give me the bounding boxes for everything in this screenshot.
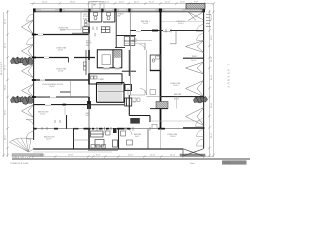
door arcs R6/R7 below dark wall <box>197 130 204 137</box>
svg-text:16'-0": 16'-0" <box>5 84 7 90</box>
vestibule label below stair <box>86 112 91 117</box>
south balcony slab (right, dark band) <box>180 154 205 156</box>
closet wall x=86 <box>85 50 87 75</box>
corridor wall right of shafts <box>128 50 130 76</box>
corridor door arc <box>140 89 147 96</box>
wall y=128.5 (full width) <box>34 128 183 133</box>
thin wall y=121 right <box>150 120 204 122</box>
corner fold door top-right <box>188 12 204 21</box>
svg-text:21'-0": 21'-0" <box>40 155 46 157</box>
svg-text:W 1 2 T H S T: W 1 2 T H S T <box>1 61 3 75</box>
closet stub y=92 <box>60 91 71 93</box>
partition x=73.5 bottom-left <box>73 129 75 149</box>
bottom border line <box>12 158 250 160</box>
north wall piers <box>33 8 205 12</box>
corridor fixtures row <box>132 98 140 102</box>
svg-text:11x14: 11x14 <box>40 114 46 116</box>
svg-text:9'-4": 9'-4" <box>96 155 100 157</box>
svg-text:12'-0": 12'-0" <box>165 2 171 4</box>
elec/mech label <box>86 41 92 47</box>
door arc R1 <box>197 25 204 32</box>
svg-text:LOBBY: LOBBY <box>98 79 105 81</box>
thin line y=43 <box>125 42 145 44</box>
label right unit mid <box>170 83 182 100</box>
svg-text:12x20: 12x20 <box>58 49 64 51</box>
counter box x=124-135 <box>124 37 135 46</box>
svg-text:10'-6": 10'-6" <box>180 2 186 4</box>
bay doors unit R4 (bowtie) <box>186 108 204 126</box>
dark kitchen island box in corridor zone <box>130 118 140 124</box>
svg-text:19'-4": 19'-4" <box>5 64 7 70</box>
partition x=118.5 <box>118 129 120 149</box>
closet partition x=81 top room <box>80 12 82 30</box>
core room right of baths: walls x=116.2 <box>115 12 136 48</box>
svg-text:Date: Date <box>190 162 195 165</box>
svg-text:21'-6": 21'-6" <box>5 42 7 48</box>
svg-text:9x11: 9x11 <box>135 136 140 138</box>
closet line bottom-left <box>74 139 90 141</box>
svg-text:14'-6": 14'-6" <box>211 74 213 80</box>
bottom dim texts <box>40 155 176 157</box>
kitchen counters bottom center <box>91 131 118 147</box>
bathrooms top pair walls <box>89 12 115 22</box>
bay doors unit L4 <box>22 84 34 97</box>
svg-text:21'-6": 21'-6" <box>5 18 7 24</box>
svg-text:12x19: 12x19 <box>173 85 179 87</box>
stair landing rail <box>98 90 124 92</box>
left dim text (rotated) <box>1 18 7 140</box>
svg-text:TOWER FLR PLAN: TOWER FLR PLAN <box>10 162 29 165</box>
label bottom mid room <box>134 134 142 138</box>
svg-text:9'-0": 9'-0" <box>105 2 109 4</box>
fixtures above bottom wall right-center <box>91 145 106 149</box>
door ticks between counters <box>93 27 97 37</box>
entry arc L1 <box>27 14 34 21</box>
left dimension lines <box>2 10 8 157</box>
bottom-left corner fan bay <box>10 138 34 152</box>
entry arc L2 <box>27 38 34 45</box>
svg-text:ME: ME <box>93 5 97 7</box>
svg-text:11x13: 11x13 <box>46 139 52 141</box>
top dimension line <box>30 2 215 4</box>
trash rm label top <box>118 13 125 18</box>
svg-text:13'-8": 13'-8" <box>211 102 213 108</box>
street trees left lower (scribble) <box>11 96 34 105</box>
elevator car <box>102 55 111 65</box>
label bedroom B <box>177 21 187 25</box>
stair outer walls <box>97 83 125 103</box>
trash room dark box <box>125 98 132 106</box>
roof/balcony box above wall, top-center <box>89 2 105 9</box>
north (top) wall band <box>33 9 205 12</box>
title stamp box <box>222 160 247 164</box>
stair treads upper flight <box>99 83 121 90</box>
svg-text:16'-8": 16'-8" <box>68 155 74 157</box>
door arc L bottom <box>26 120 33 128</box>
partition x=144 <box>147 129 149 149</box>
street trees left upper (scribble) <box>11 57 34 66</box>
svg-text:11'-6": 11'-6" <box>150 155 155 157</box>
right dim text (rotated) <box>211 14 213 138</box>
door arc at left wall above fan <box>27 131 34 138</box>
svg-text:9'-2": 9'-2" <box>93 2 97 4</box>
gym/den label <box>133 39 138 43</box>
stair treads lower flight <box>99 92 121 101</box>
wall y=97 <box>32 96 89 98</box>
wall y=30.5 right <box>130 30 203 32</box>
svg-text:1 AVENUE: 1 AVENUE <box>227 64 230 89</box>
svg-text:28'-6": 28'-6" <box>5 109 7 115</box>
west (left) wall <box>33 11 35 140</box>
bay doors unit L2 <box>22 44 34 58</box>
south (bottom) wall <box>33 149 183 152</box>
wall y=34.5 <box>32 34 89 36</box>
svg-text:10'-1": 10'-1" <box>119 2 125 4</box>
unit divider x=160.5 (party wall) <box>160 12 162 129</box>
svg-text:11x13: 11x13 <box>143 23 149 25</box>
corridor thin walls center <box>128 50 147 95</box>
corridor wall below stair <box>89 104 124 106</box>
ticks along walls (door openings) <box>42 29 171 131</box>
svg-text:12'-6": 12'-6" <box>211 14 213 20</box>
wc room <box>150 55 160 71</box>
entry scribble blob right unit <box>156 102 168 109</box>
divider x=130 <box>129 12 131 95</box>
bottom dimension line <box>30 155 214 157</box>
wall y=80 <box>32 79 89 81</box>
svg-text:W.C.: W.C. <box>152 60 156 62</box>
wall stub + note right mid <box>183 57 204 59</box>
chute box right of stair <box>125 85 132 91</box>
svg-text:15'-4": 15'-4" <box>211 132 213 138</box>
svg-text:14'-0": 14'-0" <box>170 155 176 157</box>
east (right) wall <box>203 9 205 149</box>
interior vert stub x=66.5 <box>66 115 68 129</box>
svg-text:13'-2": 13'-2" <box>128 155 134 157</box>
bottom-right corner bay (diagonals + hatch) <box>183 149 204 156</box>
bay doors unit R2 (bowtie) <box>186 62 204 74</box>
stair <box>97 83 125 103</box>
wc fixtures <box>152 56 159 62</box>
elevator shafts <box>97 50 122 68</box>
door arc R5 <box>196 119 204 127</box>
svg-text:12x18: 12x18 <box>58 70 64 72</box>
svg-text:12x20: 12x20 <box>60 29 66 31</box>
svg-text:18'-6": 18'-6" <box>70 2 76 4</box>
counter box left (below bath 1) <box>83 27 90 33</box>
core wall x=88.5 <box>88 12 90 149</box>
svg-text:11'-0": 11'-0" <box>211 57 213 62</box>
door arcs on wall y=128.6 <box>104 129 111 136</box>
wall y=96.5 right <box>147 97 204 109</box>
wall y=40 left part <box>130 39 152 41</box>
svg-text:EL 12: EL 12 <box>174 98 180 100</box>
shaft hatch cell 2 <box>114 51 121 58</box>
svg-text:A-201: A-201 <box>224 162 231 165</box>
right margin small dim texts <box>206 14 211 27</box>
svg-text:11'-3": 11'-3" <box>134 2 139 4</box>
svg-text:22'-4": 22'-4" <box>42 2 48 4</box>
svg-text:13x16: 13x16 <box>49 86 55 88</box>
svg-text:11'-3": 11'-3" <box>149 2 154 4</box>
bath fixtures <box>94 13 111 20</box>
room labels left stack <box>38 27 69 140</box>
svg-text:EL 12: EL 12 <box>192 60 197 62</box>
right dimension lines <box>208 4 214 158</box>
elevator lobby box <box>89 74 122 84</box>
svg-text:10'-2": 10'-2" <box>211 34 213 40</box>
svg-text:18'-2": 18'-2" <box>5 134 7 140</box>
svg-text:TR: TR <box>133 102 136 104</box>
balcony (hatched) top-right <box>186 4 205 9</box>
partition x=176 <box>175 31 177 45</box>
washer boxes by core <box>83 62 86 70</box>
south balcony slab (left, gray band) <box>12 154 43 156</box>
label bedroom A <box>141 21 151 25</box>
bay doors unit R3 (bowtie) <box>186 81 204 97</box>
bay doors unit R1 (bowtie) <box>186 41 204 53</box>
top dim text <box>42 2 198 4</box>
street trees right (scribble) <box>194 96 208 103</box>
elevator door ticks <box>104 67 120 69</box>
laundry fixtures right of core wall <box>85 20 98 79</box>
svg-text:RM: RM <box>118 16 121 18</box>
corridor south wall left portion <box>34 97 91 109</box>
svg-text:12x13: 12x13 <box>178 23 184 25</box>
counter box right (below bath 2) <box>101 27 110 33</box>
bay doors unit L3 <box>22 64 34 78</box>
wall y=57.5 <box>32 57 95 63</box>
cabinet box left of party wall <box>150 90 156 95</box>
svg-text:5'-0" CORR: 5'-0" CORR <box>38 97 48 99</box>
bay doors unit L5 <box>22 105 34 118</box>
svg-text:6x9: 6x9 <box>86 115 89 117</box>
top dim ticks <box>32 2 215 4</box>
svg-text:SCALE: 1/8" = 1'-0": SCALE: 1/8" = 1'-0" <box>12 156 31 159</box>
beam line right room <box>162 21 204 23</box>
south-east dark wall segment <box>183 127 205 129</box>
corridor L-wall <box>129 95 150 122</box>
bay doors unit L1 <box>22 20 34 35</box>
laundry label column <box>83 14 89 20</box>
door arc R2 <box>197 34 204 41</box>
partition x=145 + arc <box>144 43 146 50</box>
svg-text:8x10: 8x10 <box>133 41 138 43</box>
cabinet above wall y=128.6 <box>152 124 157 128</box>
svg-text:12x16: 12x16 <box>170 136 176 138</box>
fixtures bottom center small <box>106 131 133 145</box>
label right unit bottom <box>167 134 178 138</box>
